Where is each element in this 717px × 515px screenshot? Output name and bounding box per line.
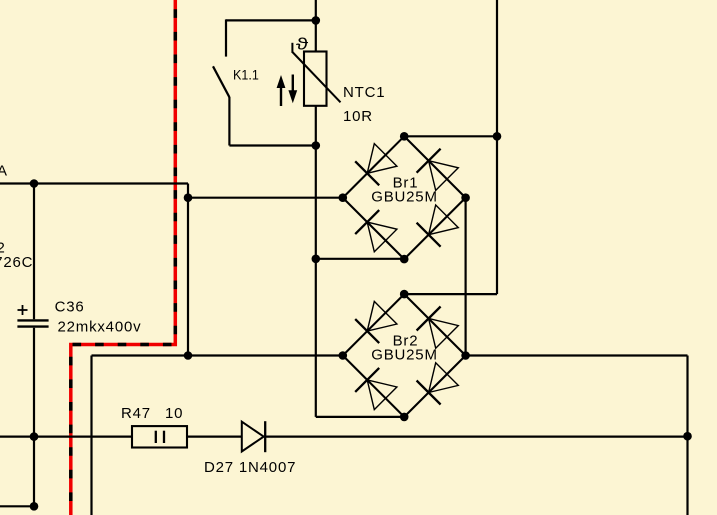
wire — [33, 184, 35, 320]
node junction — [312, 16, 321, 25]
wire — [465, 198, 467, 356]
wire — [33, 437, 35, 507]
wire — [0, 182, 188, 184]
svg-text:C36: C36 — [55, 299, 85, 316]
wire — [92, 354, 343, 356]
arrow up — [280, 84, 282, 106]
svg-text:ϑ: ϑ — [296, 35, 308, 53]
node junction — [184, 351, 193, 360]
wire — [0, 505, 34, 507]
bridge rectifier Br2 — [343, 294, 466, 417]
node junction — [493, 132, 502, 141]
wire — [265, 436, 687, 438]
arrow down — [292, 75, 294, 92]
wire — [466, 354, 688, 356]
svg-text:A: A — [0, 163, 8, 180]
wire — [187, 184, 189, 198]
node junction — [312, 141, 321, 150]
wire — [315, 106, 317, 417]
capacitor C36 — [17, 319, 48, 321]
svg-text:K1.1: K1.1 — [233, 67, 259, 82]
svg-text:GBU25M: GBU25M — [371, 346, 438, 363]
svg-text:10: 10 — [165, 405, 183, 422]
svg-text:10R: 10R — [343, 108, 373, 125]
node junction — [184, 193, 193, 202]
wire — [316, 258, 404, 260]
wire — [188, 197, 343, 199]
svg-text:D27 1N4007: D27 1N4007 — [204, 459, 296, 476]
wire — [33, 328, 35, 437]
node junction — [30, 502, 39, 511]
node junction — [312, 254, 321, 263]
wire: red-black dashed mains line — [71, 0, 176, 515]
wire — [225, 19, 227, 56]
node junction — [30, 432, 39, 441]
wire — [90, 356, 92, 515]
wire — [229, 144, 315, 146]
node junction — [30, 179, 39, 188]
svg-text:R47: R47 — [121, 405, 151, 422]
wire — [404, 135, 497, 137]
diode D27 — [242, 422, 264, 452]
relay contact K1.1 — [213, 66, 229, 97]
node junction — [683, 432, 692, 441]
svg-text:22mkx400v: 22mkx400v — [58, 319, 142, 336]
wire — [316, 416, 404, 418]
wire — [0, 436, 132, 438]
svg-text:NTC1: NTC1 — [343, 84, 385, 101]
wire — [686, 356, 688, 515]
thermistor NTC1 — [304, 52, 327, 106]
svg-text:GBU25M: GBU25M — [371, 189, 438, 206]
wire — [315, 0, 317, 52]
bridge rectifier Br1 — [343, 136, 466, 259]
wire — [496, 0, 498, 294]
wire — [187, 198, 189, 356]
svg-text:726C: 726C — [0, 254, 33, 271]
resistor R47 — [132, 426, 187, 447]
wire — [404, 293, 497, 295]
wire — [187, 436, 242, 438]
wire — [226, 19, 316, 21]
